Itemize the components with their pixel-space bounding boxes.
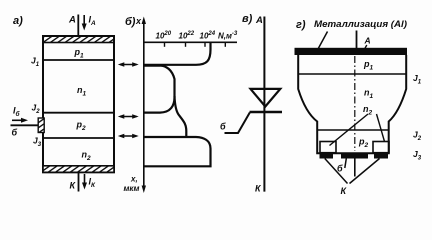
junction line J2 (a) bbox=[43, 112, 114, 114]
cathode current arrow I_K bbox=[82, 174, 96, 190]
svg-text:в): в) bbox=[242, 13, 253, 25]
svg-text:Iб: Iб bbox=[13, 106, 21, 119]
svg-text:Металлизация (Аl): Металлизация (Аl) bbox=[314, 19, 407, 29]
svg-text:1024: 1024 bbox=[200, 31, 216, 41]
bottom metallization bar (a) bbox=[43, 166, 114, 173]
junction line J3 (a) bbox=[43, 137, 114, 139]
top metallization bar (a) bbox=[43, 36, 114, 43]
svg-text:n1: n1 bbox=[364, 88, 374, 101]
svg-text:p2: p2 bbox=[76, 120, 87, 133]
tick 10^22 bbox=[185, 42, 187, 47]
thyristor triangle (symbol) bbox=[251, 89, 281, 107]
svg-text:n1: n1 bbox=[77, 85, 87, 98]
svg-text:б: б bbox=[220, 122, 226, 132]
gate terminal wire (g) bbox=[354, 159, 356, 177]
anode current arrow I_A bbox=[82, 15, 96, 31]
svg-text:г): г) bbox=[296, 19, 306, 31]
svg-text:x: x bbox=[135, 16, 142, 26]
svg-text:б: б bbox=[12, 128, 18, 138]
neck junction J2 line (g) bbox=[317, 129, 389, 131]
horizontal axis N (b) bbox=[144, 41, 237, 43]
cathode V wire left (g) bbox=[325, 159, 348, 184]
svg-text:p2: p2 bbox=[358, 137, 369, 150]
pointer from A to bar bbox=[363, 45, 367, 53]
svg-text:IК: IК bbox=[89, 177, 97, 190]
profile curve n1 bump bbox=[144, 66, 175, 113]
pointer n2 to left box bbox=[330, 114, 369, 146]
cathode contact tab right (g) bbox=[374, 154, 388, 159]
svg-text:J1: J1 bbox=[413, 73, 422, 86]
profile curve p1 region bbox=[144, 42, 211, 65]
svg-text:J3: J3 bbox=[413, 149, 422, 162]
anode lead (a) bbox=[77, 15, 79, 37]
svg-text:К: К bbox=[70, 181, 77, 191]
n2 emitter box left (g) bbox=[320, 142, 336, 153]
tick 10^24 bbox=[204, 42, 206, 47]
tick 10^20 bbox=[164, 42, 166, 47]
svg-text:J1: J1 bbox=[31, 56, 40, 69]
cathode V wire right (g) bbox=[350, 159, 380, 184]
svg-text:p1: p1 bbox=[363, 59, 374, 72]
svg-text:J3: J3 bbox=[33, 136, 42, 149]
profile curve p2 bump bbox=[175, 96, 187, 137]
svg-text:x,: x, bbox=[130, 175, 138, 184]
profile curve J3 step and n2 region bbox=[144, 137, 211, 166]
junction line J1 (a) bbox=[43, 59, 114, 61]
cathode lead (a) bbox=[78, 172, 80, 191]
svg-text:мкм: мкм bbox=[124, 184, 140, 193]
top metallization bar (g) bbox=[295, 48, 408, 55]
svg-text:а): а) bbox=[13, 15, 23, 27]
gate current arrow I_b bbox=[12, 106, 28, 123]
junction arrow J3 (between a and b) bbox=[118, 134, 139, 139]
cathode crossbar (symbol) bbox=[250, 111, 283, 114]
anode lead (g) bbox=[356, 31, 358, 49]
svg-text:IА: IА bbox=[89, 15, 97, 28]
gate lead wire (a) bbox=[11, 124, 39, 126]
gate lead (symbol) bbox=[225, 113, 250, 134]
junction J1 line (g) bbox=[298, 73, 406, 75]
svg-text:А: А bbox=[255, 15, 263, 26]
svg-text:J2: J2 bbox=[32, 103, 41, 116]
gate contact tab center (g) bbox=[341, 154, 368, 159]
mesa structure outline (g) bbox=[298, 55, 406, 153]
svg-text:N,м-3: N,м-3 bbox=[218, 31, 238, 41]
anode lead wire (symbol) bbox=[263, 17, 265, 192]
gate contact hatch (a) bbox=[38, 118, 44, 133]
junction arrow J2 (between a and b) bbox=[118, 114, 139, 119]
svg-text:К: К bbox=[255, 184, 262, 194]
svg-text:1022: 1022 bbox=[179, 31, 195, 41]
pointer line from metallization label bbox=[318, 32, 328, 50]
svg-text:б): б) bbox=[125, 16, 136, 28]
svg-text:p1: p1 bbox=[74, 47, 85, 60]
cathode contact tab left (g) bbox=[320, 154, 334, 159]
svg-text:J2: J2 bbox=[413, 130, 422, 143]
svg-text:1020: 1020 bbox=[156, 31, 172, 41]
gate lead b (g) bbox=[345, 159, 347, 169]
svg-text:А: А bbox=[364, 36, 371, 46]
vertical axis (b) bbox=[143, 20, 145, 189]
structure body (a) bbox=[43, 36, 114, 172]
n2 emitter box right (g) bbox=[373, 142, 389, 153]
pointer n2 to right box bbox=[377, 114, 385, 142]
center dash-dot axis (g) bbox=[354, 56, 356, 151]
svg-text:n2: n2 bbox=[82, 150, 92, 163]
tick N bbox=[224, 42, 226, 47]
svg-text:К: К bbox=[341, 186, 348, 196]
svg-text:А: А bbox=[68, 15, 76, 26]
junction arrow J1 (between a and b) bbox=[118, 62, 139, 67]
